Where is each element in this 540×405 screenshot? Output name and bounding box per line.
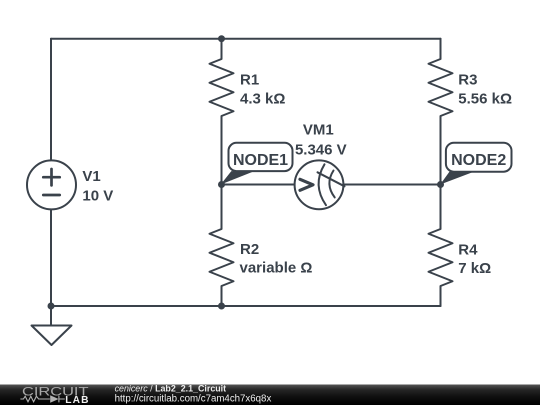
svg-text:V1: V1 [82, 168, 100, 185]
svg-text:R3: R3 [458, 71, 477, 88]
wire middle left (node1 to voltmeter) [222, 184, 295, 186]
resistor R2 [210, 185, 234, 307]
voltage source V1 [27, 160, 76, 209]
logo resistor zigzag [20, 396, 64, 403]
svg-text:variable Ω: variable Ω [240, 260, 313, 277]
VM1 scale arc 1 [319, 164, 326, 205]
ground [32, 306, 72, 345]
junction dot top R1 [218, 35, 225, 42]
node NODE2 tail [440, 172, 474, 185]
node NODE1 tail [221, 171, 255, 184]
svg-text:R1: R1 [240, 71, 259, 88]
svg-text:R4: R4 [458, 241, 478, 258]
V1 minus sign [43, 194, 59, 197]
wire bottom horizontal [51, 305, 441, 307]
V1 plus sign [43, 169, 59, 195]
svg-text:LAB: LAB [65, 395, 90, 405]
logo diode bar [59, 396, 65, 403]
svg-text:cenicerc / Lab2_2.1_Circuit: cenicerc / Lab2_2.1_Circuit [115, 383, 227, 393]
svg-text:10 V: 10 V [82, 187, 113, 204]
node NODE2 label box [446, 143, 512, 172]
svg-text:NODE1: NODE1 [233, 152, 288, 169]
resistor R3 [429, 39, 453, 185]
svg-text:http://circuitlab.com/c7am4ch7: http://circuitlab.com/c7am4ch7x6q8x [115, 393, 272, 404]
junction dot bottom R2 [218, 303, 225, 310]
svg-text:7 kΩ: 7 kΩ [458, 260, 491, 277]
VM1 pointer > [300, 179, 313, 190]
voltmeter VM1 [295, 160, 344, 209]
svg-text:NODE2: NODE2 [451, 152, 506, 169]
wire top horizontal [51, 38, 441, 40]
VM1 needle [318, 172, 345, 186]
VM1 scale arc 2 [329, 171, 334, 198]
logo diode triangle [50, 395, 58, 402]
svg-text:VM1: VM1 [303, 121, 334, 138]
svg-text:R2: R2 [240, 241, 259, 258]
svg-text:4.3 kΩ: 4.3 kΩ [240, 91, 285, 108]
junction dot bottom ground [48, 303, 55, 310]
svg-text:5.56 kΩ: 5.56 kΩ [458, 91, 512, 108]
resistor R1 [210, 39, 234, 185]
node NODE1 label box [229, 143, 293, 171]
resistor R4 [429, 185, 453, 307]
wire middle right (voltmeter to node2) [343, 184, 440, 186]
wire left upper [50, 39, 52, 161]
svg-text:5.346 V: 5.346 V [295, 141, 347, 158]
node B junction dot NODE2 [437, 181, 444, 188]
wire left lower [50, 209, 52, 306]
node A junction dot NODE1 [218, 181, 225, 188]
